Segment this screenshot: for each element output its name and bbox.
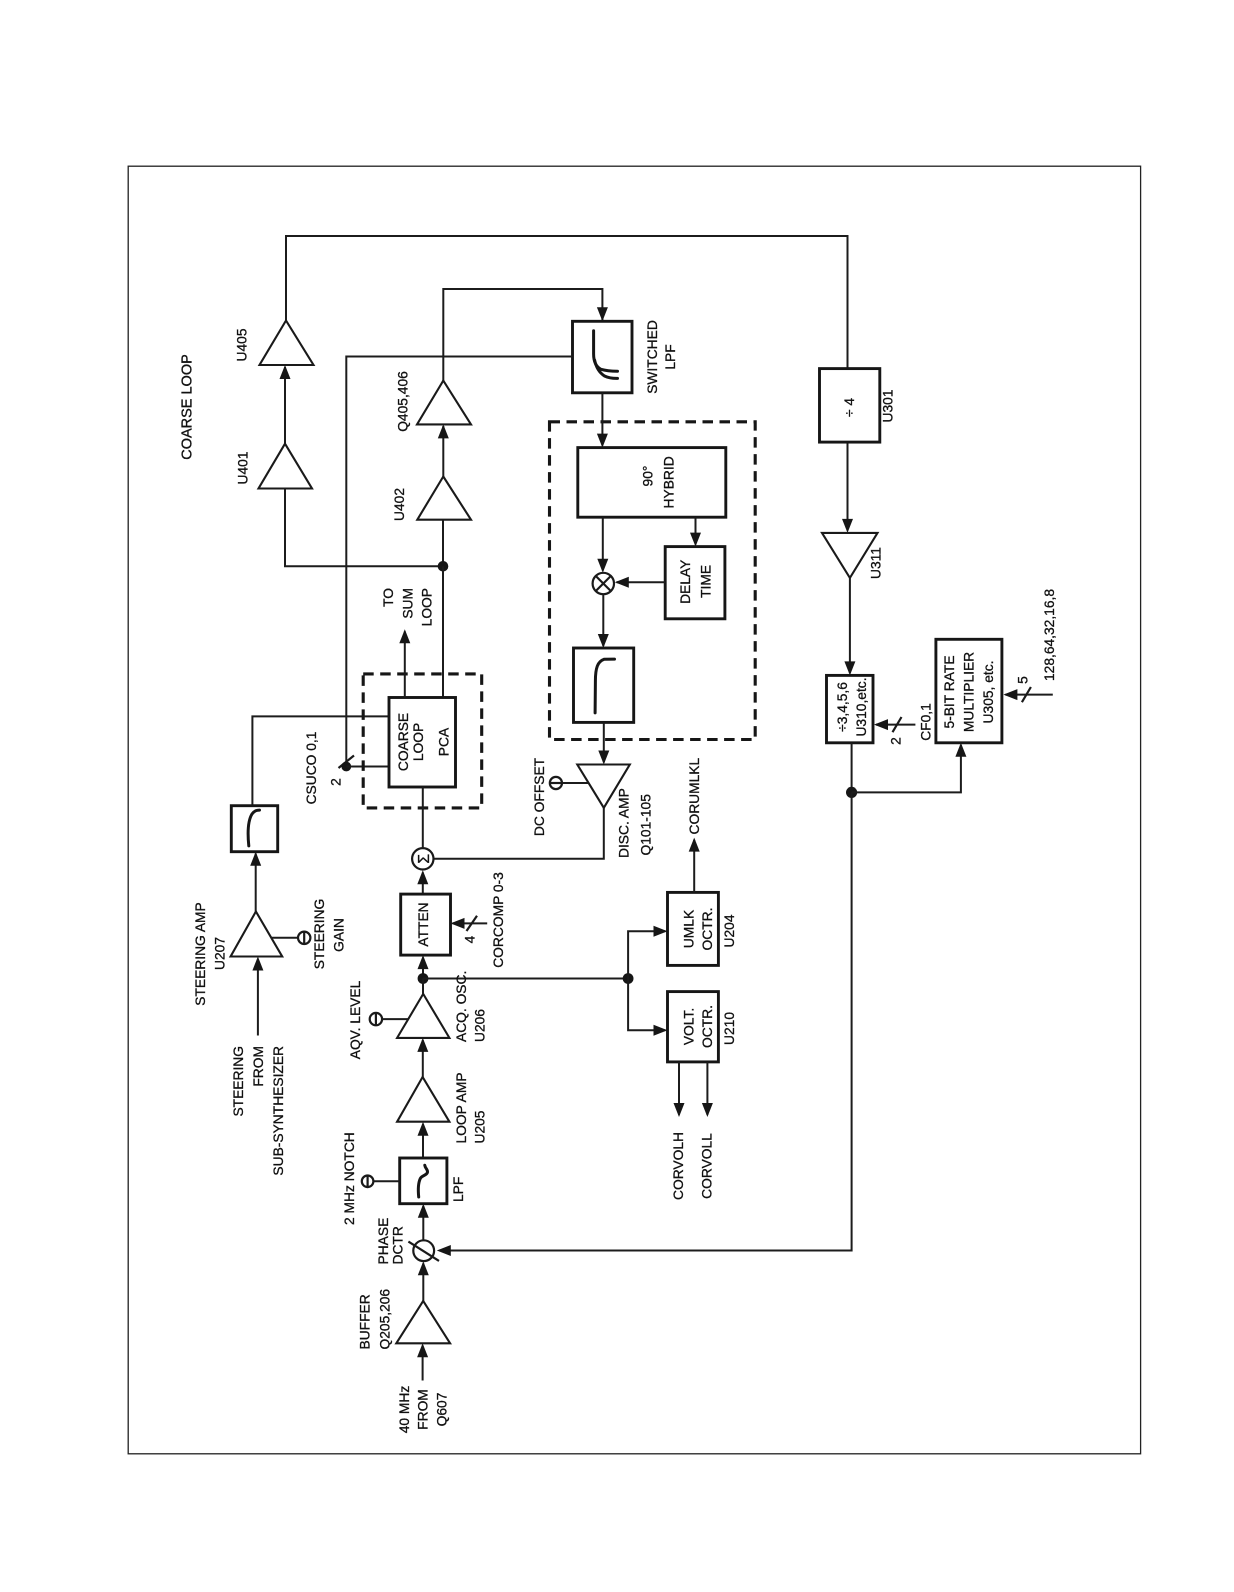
svg-text:Q405,406: Q405,406 (396, 371, 411, 432)
wire notch LPF to loop amp with arrow (418, 1122, 429, 1158)
label SWITCHED LPF (645, 320, 678, 394)
label CF0,1 (919, 703, 934, 741)
label STEERING AMP U207 (193, 902, 228, 1006)
svg-text:U402: U402 (392, 488, 407, 521)
svg-text:FROM: FROM (416, 1389, 431, 1430)
summer S1 (412, 848, 433, 869)
svg-text:U204: U204 (722, 914, 737, 947)
wire CORVOLH output with arrow (674, 1062, 685, 1117)
title COARSE LOOP (180, 354, 196, 460)
svg-text:DC OFFSET: DC OFFSET (532, 757, 547, 836)
wire steering gain stub (272, 937, 299, 939)
label U311 (869, 547, 884, 579)
label 2 (CF width) (889, 737, 904, 745)
svg-text:OCTR.: OCTR. (700, 908, 715, 951)
svg-text:128,64,32,16,8: 128,64,32,16,8 (1042, 589, 1057, 681)
pot AQV LEVEL theta (370, 1013, 382, 1025)
svg-text:U401: U401 (236, 452, 251, 485)
label 4 (CORCOMP width) (463, 935, 478, 943)
svg-text:TO: TO (381, 588, 396, 607)
pot DC OFFSET theta (550, 777, 562, 789)
label 2 MHz NOTCH (342, 1132, 357, 1225)
label CSUCO 0,1 (304, 732, 319, 805)
wire hybrid to delay line with arrow (690, 517, 701, 546)
amplifier U311 (822, 533, 878, 578)
label divide by 4 (842, 398, 857, 417)
svg-text:VOLT.: VOLT. (682, 1008, 697, 1045)
amplifier U401 (259, 444, 313, 489)
wire CF0,1 into U310 with arrow (874, 719, 915, 730)
label TO SUM LOOP (381, 588, 435, 627)
svg-text:CORVOLH: CORVOLH (671, 1132, 686, 1200)
label BUFFER Q205,206 (357, 1289, 392, 1350)
label DC OFFSET (532, 757, 547, 836)
box VOLT OCTR (668, 992, 719, 1062)
svg-text:40 MHz: 40 MHz (397, 1386, 412, 1434)
icon switched LPF response curves (594, 331, 618, 379)
svg-text:5: 5 (1016, 676, 1031, 684)
label 5-BIT RATE MULTIPLIER U305 (942, 652, 996, 732)
wire CSUCO node to COARSE LOOP PCA (346, 766, 389, 768)
node D junction dot (846, 787, 857, 798)
svg-text:CORUMLKL: CORUMLKL (687, 758, 702, 835)
node B junction dot (418, 973, 429, 984)
amplifier Q405,406 (417, 381, 471, 425)
svg-text:U305, etc.: U305, etc. (981, 661, 996, 724)
box UMLK OCTR (668, 892, 719, 965)
box 5-BIT RATE MULTIPLIER U305 (936, 639, 1002, 743)
wire LPF to disc amp with arrow (598, 722, 609, 764)
svg-text:PCA: PCA (437, 727, 452, 756)
svg-text:CORCOMP 0-3: CORCOMP 0-3 (491, 872, 506, 968)
label ATTEN (416, 902, 431, 946)
amplifier U405 (260, 321, 314, 366)
box notch LPF (400, 1158, 447, 1204)
svg-text:ACQ. OSC.: ACQ. OSC. (454, 971, 469, 1042)
svg-text:DCTR: DCTR (391, 1226, 406, 1264)
wire node A to COARSE LOOP PCA (442, 566, 444, 697)
wire node C to UMLK OCTR with arrow (628, 926, 667, 979)
wire U401 to U405 with arrow (280, 365, 291, 444)
label CORCOMP 0-3 (491, 872, 506, 968)
bus slash rate 5 (1022, 687, 1031, 702)
wire node C to VOLT OCTR with arrow (628, 979, 667, 1036)
wire node B to ATTEN with arrow (418, 955, 429, 978)
box steering integrator (231, 806, 277, 852)
node C junction dot (623, 973, 634, 984)
label Q405,406 (396, 371, 411, 432)
box DELAY TIME (665, 547, 725, 619)
svg-text:2: 2 (329, 778, 344, 786)
wire DC offset stub (562, 782, 589, 784)
svg-text:LOOP: LOOP (411, 723, 426, 761)
label U402 (392, 488, 407, 521)
label CORVOLL (699, 1133, 714, 1199)
label divide by 3,4,5,6 U310 (835, 677, 869, 736)
box LPF (discriminator) (574, 648, 634, 722)
label CORUMLKL (687, 758, 702, 835)
wire hybrid to mixer with arrow (597, 517, 608, 573)
bus slash CF 2 (893, 717, 902, 732)
box 90 degree hybrid (578, 448, 726, 518)
phase detector DCTR (408, 1240, 439, 1261)
node CSUCO junction dot (341, 762, 351, 772)
svg-text:LOOP AMP: LOOP AMP (454, 1072, 469, 1143)
icon notch response curve (418, 1165, 427, 1197)
svg-text:CSUCO 0,1: CSUCO 0,1 (304, 732, 319, 805)
label U301 (881, 390, 896, 423)
wire ATTEN to summer with arrow (417, 870, 428, 894)
wire SWITCHED LPF to CSUCO node (346, 357, 572, 767)
svg-text:Q101-105: Q101-105 (639, 794, 654, 856)
wire disc amp output to summer (434, 808, 604, 859)
box COARSE LOOP PCA (389, 698, 456, 788)
wire TO SUM LOOP with arrow (399, 629, 410, 697)
mixer M1 (593, 573, 614, 594)
label CORVOLH (671, 1132, 686, 1200)
svg-text:U205: U205 (473, 1110, 488, 1143)
box divider U301 (820, 369, 880, 443)
wire U207 to steering integrator with arrow (250, 852, 261, 912)
label VOLT OCTR (682, 1005, 716, 1048)
box ATTEN (401, 894, 451, 955)
wire rate select into U305 with arrow (1003, 689, 1052, 700)
amplifier DISC AMP Q101-105 (577, 765, 630, 808)
svg-text:CF0,1: CF0,1 (919, 703, 934, 741)
wire node B to node C (423, 978, 628, 980)
svg-text:PHASE: PHASE (376, 1218, 391, 1265)
wire U206 output to node B (422, 979, 424, 994)
wire U402 input from node A (442, 520, 444, 567)
svg-text:UMLK: UMLK (682, 909, 697, 948)
amplifier BUFFER Q205,206 (396, 1301, 450, 1343)
svg-text:U301: U301 (881, 390, 896, 423)
wire CORVOLL output with arrow (702, 1062, 713, 1117)
svg-text:2 MHz NOTCH: 2 MHz NOTCH (342, 1132, 357, 1225)
icon steering integrator curve (248, 810, 259, 846)
svg-text:÷3,4,5,6: ÷3,4,5,6 (835, 682, 850, 732)
svg-text:STEERING: STEERING (312, 899, 327, 970)
label DELAY TIME (678, 560, 714, 604)
label U210 (722, 1012, 737, 1045)
label U401 (236, 452, 251, 485)
svg-text:DELAY: DELAY (678, 560, 693, 604)
label LPF (notch box) (451, 1177, 466, 1202)
label AQV. LEVEL (348, 980, 363, 1059)
svg-text:MULTIPLIER: MULTIPLIER (961, 652, 976, 732)
wire CORUMLKL output with arrow (689, 838, 700, 893)
svg-text:U310,etc.: U310,etc. (854, 677, 869, 736)
wire U311 to divider U310 with arrow (844, 578, 855, 676)
amplifier ACQ OSC U206 (397, 994, 449, 1038)
bus slash CSUCO 2 (339, 756, 355, 769)
wire mixer to LPF with arrow (598, 594, 609, 648)
label STEERING FROM SUB-SYNTHESIZER (231, 1046, 286, 1176)
wire Q405,406 output to SWITCHED LPF input (443, 289, 608, 381)
svg-text:GAIN: GAIN (332, 918, 347, 952)
amplifier U207 steering amp (231, 912, 283, 957)
svg-text:SUM: SUM (400, 588, 415, 619)
dashed outline discriminator module (550, 422, 756, 740)
label 128,64,32,16,8 (1042, 589, 1057, 681)
pot 2 MHz NOTCH theta (362, 1176, 374, 1188)
svg-text:FROM: FROM (251, 1046, 266, 1087)
svg-text:2: 2 (889, 737, 904, 745)
wire U402 to Q405,406 with arrow (438, 424, 449, 476)
label 2 (CSUCO width) (329, 778, 344, 786)
svg-text:CORVOLL: CORVOLL (699, 1133, 714, 1199)
svg-text:5-BIT RATE: 5-BIT RATE (942, 655, 957, 728)
wire steering input from sub-synthesizer with arrow (252, 957, 263, 1036)
wire SWITCHED LPF to 90 hybrid with arrow (597, 393, 608, 448)
wire node D to 5-bit rate multiplier with arrow (852, 743, 967, 793)
svg-text:COARSE: COARSE (396, 713, 411, 771)
box SWITCHED LPF (573, 321, 633, 393)
wire CORCOMP into ATTEN with arrow (451, 918, 488, 929)
label 40 MHz FROM Q607 (397, 1386, 450, 1434)
svg-text:Q205,206: Q205,206 (377, 1289, 392, 1350)
svg-text:U210: U210 (722, 1012, 737, 1045)
wire AQV level stub (382, 1018, 408, 1020)
label 5 (rate width) (1016, 676, 1031, 684)
svg-text:LOOP: LOOP (420, 588, 435, 626)
node A junction dot (438, 561, 449, 572)
wire feedback node D to phase detector with arrow (437, 792, 852, 1256)
svg-text:4: 4 (463, 935, 478, 943)
svg-text:HYBRID: HYBRID (662, 456, 677, 508)
svg-text:TIME: TIME (699, 565, 714, 598)
svg-text:OCTR.: OCTR. (700, 1005, 715, 1048)
svg-text:COARSE LOOP: COARSE LOOP (180, 354, 196, 460)
wire U310 to node D (851, 743, 853, 793)
amplifier U402 (417, 477, 471, 520)
svg-text:STEERING: STEERING (231, 1046, 246, 1117)
label STEERING GAIN (312, 899, 346, 970)
svg-text:U206: U206 (473, 1009, 488, 1042)
bus slash CORCOMP 4 (467, 916, 478, 931)
wire 40 MHz input with arrow (417, 1343, 428, 1380)
wire steering integrator to COARSE LOOP PCA (252, 716, 389, 805)
svg-text:SWITCHED: SWITCHED (645, 320, 660, 394)
wire phase detector to notch LPF with arrow (418, 1204, 429, 1241)
label U204 (722, 914, 737, 947)
label LOOP AMP U205 (454, 1072, 488, 1143)
label 90 HYBRID (641, 456, 677, 508)
label U405 (235, 328, 250, 361)
wire summer to COARSE LOOP PCA (422, 787, 424, 848)
label DISC. AMP Q101-105 (617, 788, 654, 858)
svg-text:U311: U311 (869, 547, 884, 579)
label ACQ. OSC. U206 (454, 971, 488, 1042)
label COARSE LOOP PCA (396, 713, 452, 771)
dashed outline coarse loop PCA module (363, 674, 482, 808)
svg-text:U207: U207 (213, 937, 228, 970)
wire notch adjust stub (373, 1180, 399, 1182)
wire buffer to phase detector with arrow (418, 1261, 429, 1301)
svg-text:Σ: Σ (416, 854, 433, 864)
svg-text:90°: 90° (641, 466, 656, 487)
svg-text:LPF: LPF (451, 1177, 466, 1202)
label UMLK OCTR (682, 908, 716, 951)
svg-text:BUFFER: BUFFER (357, 1294, 372, 1349)
amplifier LOOP AMP U205 (397, 1077, 449, 1122)
svg-text:AQV. LEVEL: AQV. LEVEL (348, 980, 363, 1059)
svg-text:Q607: Q607 (435, 1393, 450, 1427)
svg-text:ATTEN: ATTEN (416, 902, 431, 946)
box divider U310 (827, 675, 874, 742)
wire top rail into divider U301 (included in rail) (842, 442, 853, 533)
wire U405 output to top rail to U301 (286, 236, 848, 369)
svg-text:LPF: LPF (663, 344, 678, 369)
svg-text:STEERING AMP: STEERING AMP (193, 902, 208, 1006)
svg-text:U405: U405 (235, 328, 250, 361)
icon LPF curve (595, 659, 614, 713)
wire U401 input from node A (285, 489, 443, 567)
svg-text:DISC. AMP: DISC. AMP (617, 788, 632, 858)
pot STEERING GAIN theta (298, 932, 310, 944)
wire delay line to mixer with arrow (615, 577, 665, 588)
svg-text:SUB-SYNTHESIZER: SUB-SYNTHESIZER (271, 1046, 286, 1176)
label PHASE DCTR (376, 1218, 406, 1265)
wire loop amp to U206 with arrow (417, 1038, 428, 1077)
svg-text:÷ 4: ÷ 4 (842, 398, 857, 417)
